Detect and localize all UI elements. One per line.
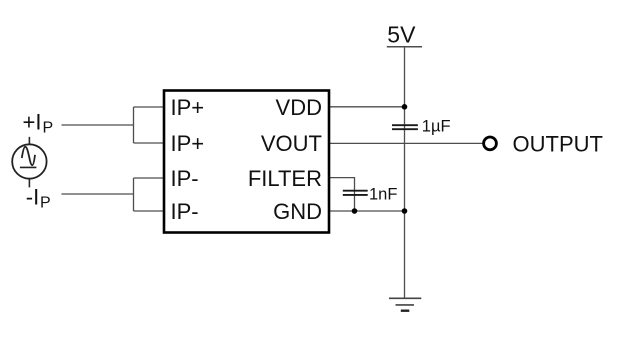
- svg-text:FILTER: FILTER: [248, 166, 322, 191]
- svg-text:VDD: VDD: [276, 95, 322, 120]
- svg-text:1µF: 1µF: [422, 117, 451, 135]
- svg-text:OUTPUT: OUTPUT: [513, 132, 603, 157]
- svg-text:P: P: [43, 120, 54, 137]
- svg-text:-I: -I: [26, 185, 39, 210]
- svg-text:IP+: IP+: [171, 131, 205, 156]
- svg-text:IP+: IP+: [171, 95, 205, 120]
- svg-text:IP-: IP-: [171, 199, 199, 224]
- svg-text:IP-: IP-: [171, 166, 199, 191]
- svg-text:GND: GND: [273, 199, 322, 224]
- svg-text:1nF: 1nF: [369, 185, 397, 203]
- svg-text:+I: +I: [23, 110, 42, 135]
- svg-text:P: P: [40, 194, 51, 211]
- svg-text:VOUT: VOUT: [261, 131, 322, 156]
- svg-text:5V: 5V: [387, 22, 416, 48]
